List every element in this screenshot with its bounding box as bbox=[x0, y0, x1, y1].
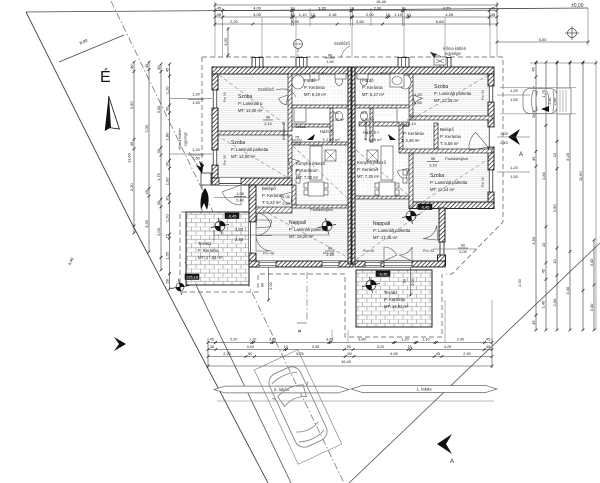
svg-text:Nappali: Nappali bbox=[289, 220, 306, 226]
svg-text:1,80: 1,80 bbox=[235, 227, 244, 232]
svg-text:3,00: 3,00 bbox=[223, 37, 228, 46]
svg-text:195,18: 195,18 bbox=[186, 274, 198, 279]
svg-text:P: Kerámia: P: Kerámia bbox=[304, 85, 325, 90]
svg-text:2,10: 2,10 bbox=[326, 252, 334, 257]
svg-text:1,80: 1,80 bbox=[164, 132, 169, 141]
svg-text:10: 10 bbox=[284, 345, 288, 349]
svg-text:2,40: 2,40 bbox=[500, 140, 509, 145]
svg-text:1,06: 1,06 bbox=[236, 191, 244, 196]
svg-text:45: 45 bbox=[217, 5, 222, 10]
svg-text:2,65: 2,65 bbox=[356, 19, 365, 24]
svg-text:3,20: 3,20 bbox=[377, 345, 384, 349]
svg-text:1,20: 1,20 bbox=[414, 92, 423, 97]
svg-text:P: Kerámia: P: Kerámia bbox=[403, 131, 424, 136]
svg-text:Szellőző: Szellőző bbox=[334, 41, 350, 46]
svg-text:2,00: 2,00 bbox=[518, 279, 522, 286]
svg-text:WC: WC bbox=[333, 111, 340, 115]
svg-text:1,50: 1,50 bbox=[326, 59, 334, 64]
svg-text:50: 50 bbox=[347, 352, 351, 356]
svg-text:Konyha étkező: Konyha étkező bbox=[296, 161, 326, 166]
svg-text:Belépő: Belépő bbox=[262, 186, 276, 191]
svg-text:Pm 43: Pm 43 bbox=[423, 249, 434, 253]
svg-text:MT: 17,45 m²: MT: 17,45 m² bbox=[373, 235, 398, 240]
svg-text:1,50: 1,50 bbox=[510, 174, 519, 179]
svg-text:A: A bbox=[450, 459, 454, 465]
svg-text:2,00: 2,00 bbox=[411, 278, 415, 285]
svg-text:1,06: 1,06 bbox=[282, 195, 289, 199]
svg-text:30: 30 bbox=[164, 196, 169, 201]
svg-text:45: 45 bbox=[144, 189, 149, 194]
svg-text:Klíma kültéri: Klíma kültéri bbox=[178, 128, 182, 149]
svg-text:1,10: 1,10 bbox=[394, 12, 403, 17]
svg-text:16,40: 16,40 bbox=[341, 359, 352, 364]
svg-text:90: 90 bbox=[261, 283, 265, 287]
svg-text:MT: 12,14 m²: MT: 12,14 m² bbox=[430, 187, 455, 192]
svg-text:MT: 7,30 m²: MT: 7,30 m² bbox=[296, 175, 319, 180]
svg-text:1,20: 1,20 bbox=[401, 338, 408, 342]
svg-text:3,30: 3,30 bbox=[129, 183, 134, 192]
svg-text:1,00: 1,00 bbox=[500, 131, 509, 136]
svg-text:1,10: 1,10 bbox=[422, 338, 429, 342]
svg-text:P: Laminált parketta: P: Laminált parketta bbox=[373, 228, 411, 233]
svg-text:Padlásfeljáró: Padlásfeljáró bbox=[445, 156, 469, 161]
svg-text:50: 50 bbox=[248, 352, 252, 356]
svg-text:2,20: 2,20 bbox=[230, 19, 239, 24]
svg-text:2,00: 2,00 bbox=[156, 227, 161, 236]
svg-text:45: 45 bbox=[541, 268, 546, 273]
svg-text:P: Laminált parketta: P: Laminált parketta bbox=[430, 180, 468, 185]
svg-text:3,30: 3,30 bbox=[144, 219, 149, 228]
svg-text:10: 10 bbox=[401, 5, 406, 10]
svg-text:2,90: 2,90 bbox=[374, 5, 383, 10]
svg-text:45: 45 bbox=[491, 5, 496, 10]
svg-text:T: 5,58 m²: T: 5,58 m² bbox=[440, 141, 459, 146]
svg-text:4,65: 4,65 bbox=[390, 352, 397, 356]
svg-text:3,40: 3,40 bbox=[589, 258, 594, 267]
svg-text:2,10: 2,10 bbox=[408, 121, 416, 126]
svg-text:2,90: 2,90 bbox=[552, 97, 557, 106]
svg-text:3,00: 3,00 bbox=[156, 105, 161, 114]
svg-text:1,10: 1,10 bbox=[299, 12, 308, 17]
svg-text:Pm 48: Pm 48 bbox=[263, 252, 274, 256]
svg-text:1,20: 1,20 bbox=[192, 92, 200, 97]
svg-text:2,80: 2,80 bbox=[548, 98, 552, 105]
svg-text:10: 10 bbox=[552, 259, 557, 264]
svg-text:40: 40 bbox=[129, 64, 134, 69]
svg-text:10: 10 bbox=[311, 12, 316, 17]
svg-text:T: 5,23 m²: T: 5,23 m² bbox=[262, 200, 281, 205]
svg-text:Moso: Moso bbox=[296, 124, 307, 129]
svg-text:4,00: 4,00 bbox=[253, 5, 262, 10]
svg-text:P: Kerámia: P: Kerámia bbox=[262, 193, 283, 198]
svg-text:10: 10 bbox=[406, 12, 411, 17]
svg-text:P: Laminált parketta: P: Laminált parketta bbox=[231, 147, 269, 152]
svg-text:50: 50 bbox=[347, 345, 351, 349]
svg-text:Pm 2,90: Pm 2,90 bbox=[380, 72, 393, 76]
svg-text:30: 30 bbox=[164, 161, 169, 166]
svg-text:4,50: 4,50 bbox=[531, 236, 536, 245]
svg-text:É: É bbox=[100, 67, 111, 86]
svg-text:±0,00: ±0,00 bbox=[571, 3, 584, 9]
svg-text:2,18: 2,18 bbox=[329, 12, 338, 17]
svg-text:Pm 90: Pm 90 bbox=[223, 92, 227, 102]
svg-text:2,80: 2,80 bbox=[541, 171, 546, 180]
svg-text:4,55: 4,55 bbox=[443, 5, 452, 10]
svg-text:45: 45 bbox=[531, 156, 536, 161]
svg-text:30: 30 bbox=[164, 106, 169, 111]
svg-text:MT: 14,91 m²: MT: 14,91 m² bbox=[384, 304, 409, 309]
svg-text:2,00: 2,00 bbox=[552, 298, 557, 307]
svg-text:1,40: 1,40 bbox=[541, 300, 546, 309]
svg-text:2,90: 2,90 bbox=[129, 101, 134, 110]
svg-text:10: 10 bbox=[349, 5, 354, 10]
svg-text:3,60: 3,60 bbox=[269, 338, 276, 342]
svg-text:4,25: 4,25 bbox=[444, 345, 451, 349]
svg-text:2,90: 2,90 bbox=[552, 204, 557, 213]
svg-text:Fürdő: Fürdő bbox=[362, 78, 374, 83]
svg-text:3,40: 3,40 bbox=[589, 303, 594, 312]
svg-text:11,60: 11,60 bbox=[578, 171, 583, 181]
svg-text:2,10: 2,10 bbox=[293, 141, 301, 146]
svg-text:-0,45: -0,45 bbox=[228, 213, 237, 218]
svg-text:MT: 12,00 m²: MT: 12,00 m² bbox=[238, 108, 263, 113]
svg-text:1,20: 1,20 bbox=[510, 165, 519, 170]
svg-text:T: 3,48 m²: T: 3,48 m² bbox=[401, 138, 420, 143]
svg-text:30: 30 bbox=[156, 65, 161, 70]
svg-text:10: 10 bbox=[290, 5, 295, 10]
svg-text:58: 58 bbox=[164, 278, 169, 283]
svg-text:Szoba: Szoba bbox=[430, 173, 444, 179]
svg-text:30: 30 bbox=[156, 200, 161, 205]
svg-text:egysége: egysége bbox=[445, 51, 462, 56]
svg-text:2,90: 2,90 bbox=[463, 352, 470, 356]
svg-text:45: 45 bbox=[144, 63, 149, 68]
svg-text:Pm 90: Pm 90 bbox=[481, 90, 485, 100]
svg-text:10: 10 bbox=[290, 12, 295, 17]
svg-text:Pm 90: Pm 90 bbox=[223, 155, 227, 165]
svg-text:45: 45 bbox=[210, 345, 214, 349]
svg-text:-0,45: -0,45 bbox=[379, 271, 388, 276]
svg-text:45: 45 bbox=[210, 338, 214, 342]
svg-text:3,35: 3,35 bbox=[318, 5, 327, 10]
svg-text:P: Laminált parketta: P: Laminált parketta bbox=[289, 227, 327, 232]
svg-text:Pm 2,90: Pm 2,90 bbox=[312, 72, 325, 76]
svg-text:2,40: 2,40 bbox=[236, 198, 244, 203]
svg-text:10: 10 bbox=[552, 152, 557, 157]
svg-text:Pm 90: Pm 90 bbox=[481, 177, 485, 187]
svg-text:2,00: 2,00 bbox=[459, 249, 467, 254]
svg-text:P: Kerámia: P: Kerámia bbox=[440, 134, 461, 139]
svg-text:15: 15 bbox=[407, 345, 411, 349]
svg-text:Nappali: Nappali bbox=[373, 221, 390, 227]
svg-text:Terasz: Terasz bbox=[198, 241, 212, 246]
svg-text:45: 45 bbox=[436, 352, 440, 356]
svg-text:2,00 m²: 2,00 m² bbox=[332, 118, 345, 122]
svg-text:4,90: 4,90 bbox=[291, 19, 300, 24]
svg-text:4,00: 4,00 bbox=[253, 12, 262, 17]
svg-text:1,50: 1,50 bbox=[414, 100, 423, 105]
svg-text:B: B bbox=[297, 329, 302, 332]
svg-text:MT: 5,47 m²: MT: 5,47 m² bbox=[362, 92, 385, 97]
svg-text:45: 45 bbox=[164, 67, 169, 72]
svg-text:16,40: 16,40 bbox=[376, 0, 387, 4]
svg-text:P: Kerámia: P: Kerámia bbox=[296, 168, 317, 173]
svg-text:2. lakás: 2. lakás bbox=[274, 387, 290, 392]
svg-text:1,50: 1,50 bbox=[510, 97, 519, 102]
svg-text:2,40: 2,40 bbox=[235, 237, 244, 242]
svg-text:P: Laminált p: P: Laminált p bbox=[238, 101, 263, 106]
svg-text:5,00: 5,00 bbox=[539, 37, 548, 42]
svg-text:8,20: 8,20 bbox=[565, 152, 570, 161]
svg-text:MT: 12,25 m²: MT: 12,25 m² bbox=[434, 98, 459, 103]
svg-text:T: 2,67 m²: T: 2,67 m² bbox=[322, 137, 340, 142]
svg-text:4,26: 4,26 bbox=[445, 12, 454, 17]
svg-text:Közlekedő: Közlekedő bbox=[282, 122, 286, 140]
svg-text:MT: 7,30 m²: MT: 7,30 m² bbox=[357, 174, 380, 179]
svg-text:1,75: 1,75 bbox=[541, 89, 546, 98]
svg-text:egysége: egysége bbox=[184, 132, 188, 146]
svg-text:P: Kerámia: P: Kerámia bbox=[384, 297, 405, 302]
svg-text:11,60: 11,60 bbox=[127, 152, 132, 162]
svg-text:75: 75 bbox=[295, 135, 299, 140]
svg-text:10: 10 bbox=[541, 242, 546, 247]
svg-text:3,35: 3,35 bbox=[312, 345, 319, 349]
svg-text:2,20: 2,20 bbox=[223, 352, 230, 356]
svg-text:2,90: 2,90 bbox=[457, 338, 464, 342]
svg-text:1,50: 1,50 bbox=[192, 156, 200, 161]
svg-text:Közlekedő: Közlekedő bbox=[364, 122, 368, 140]
svg-text:15: 15 bbox=[164, 233, 169, 238]
svg-text:1,35: 1,35 bbox=[164, 251, 169, 260]
svg-text:MT: 17,03 m²: MT: 17,03 m² bbox=[198, 255, 223, 260]
svg-text:1. lakás: 1. lakás bbox=[416, 387, 432, 392]
svg-text:Szellőző: Szellőző bbox=[258, 87, 274, 92]
svg-text:1,20: 1,20 bbox=[510, 88, 519, 93]
svg-text:10: 10 bbox=[386, 12, 391, 17]
svg-text:Belépő: Belépő bbox=[440, 127, 454, 132]
svg-text:P: Kerámia: P: Kerámia bbox=[198, 248, 219, 253]
svg-text:7,00: 7,00 bbox=[144, 124, 149, 133]
svg-text:45: 45 bbox=[217, 12, 222, 17]
svg-text:Konyha étkező: Konyha étkező bbox=[357, 160, 387, 165]
svg-text:MT: 6,20 m²: MT: 6,20 m² bbox=[304, 92, 327, 97]
svg-text:P: Kerámia: P: Kerámia bbox=[357, 167, 378, 172]
svg-text:2,40: 2,40 bbox=[282, 202, 289, 206]
svg-text:90: 90 bbox=[403, 279, 407, 283]
svg-text:45: 45 bbox=[531, 66, 536, 71]
svg-text:A: A bbox=[519, 152, 523, 158]
svg-text:-0,45: -0,45 bbox=[421, 204, 430, 209]
svg-text:4,00: 4,00 bbox=[247, 345, 254, 349]
svg-text:45: 45 bbox=[491, 12, 496, 17]
svg-text:2,00 m²: 2,00 m² bbox=[362, 118, 375, 122]
svg-text:45: 45 bbox=[531, 320, 536, 325]
svg-text:2,20: 2,20 bbox=[230, 338, 237, 342]
svg-text:45: 45 bbox=[486, 345, 490, 349]
svg-text:3,40: 3,40 bbox=[565, 286, 570, 295]
svg-text:30: 30 bbox=[156, 148, 161, 153]
svg-text:1,50: 1,50 bbox=[192, 100, 200, 105]
svg-text:3,80: 3,80 bbox=[358, 338, 365, 342]
svg-text:1,20: 1,20 bbox=[164, 214, 169, 223]
svg-text:2,00: 2,00 bbox=[269, 282, 273, 289]
svg-text:40: 40 bbox=[129, 141, 134, 146]
svg-text:1,10: 1,10 bbox=[164, 86, 169, 95]
svg-text:2,10: 2,10 bbox=[264, 121, 272, 126]
svg-text:2,10: 2,10 bbox=[429, 163, 437, 168]
svg-text:Szoba: Szoba bbox=[434, 84, 448, 90]
svg-text:WC: WC bbox=[361, 111, 368, 115]
svg-text:Padlásfeljáró: Padlásfeljáró bbox=[310, 207, 334, 212]
svg-text:3,35: 3,35 bbox=[326, 338, 333, 342]
svg-text:Házt. h.: Házt. h. bbox=[320, 129, 334, 134]
svg-text:Fürdő: Fürdő bbox=[304, 78, 316, 83]
svg-text:Terasz: Terasz bbox=[384, 290, 398, 295]
svg-text:1,20: 1,20 bbox=[192, 147, 200, 152]
svg-text:P: Kerámia: P: Kerámia bbox=[362, 85, 383, 90]
svg-text:1,10: 1,10 bbox=[249, 338, 256, 342]
svg-text:6,65: 6,65 bbox=[436, 19, 445, 24]
svg-text:2,00: 2,00 bbox=[366, 12, 375, 17]
svg-text:1,00: 1,00 bbox=[164, 177, 169, 186]
svg-text:1,75: 1,75 bbox=[156, 172, 161, 181]
svg-text:45: 45 bbox=[486, 338, 490, 342]
